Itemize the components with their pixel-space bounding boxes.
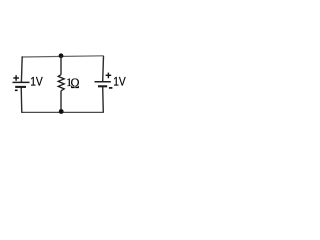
wire top rail (22, 56, 104, 57)
wire left vertical (V1 minus plate to bottom rail) (20, 87, 23, 113)
battery V2 short plate (98, 85, 107, 87)
battery V1 plus sign (13, 75, 19, 81)
wire resistor top lead (60, 56, 62, 75)
node A top junction dot (59, 53, 64, 58)
wire right vertical (V2 minus plate to bottom rail) (102, 87, 105, 113)
battery V2 plus sign (106, 73, 112, 79)
svg-text:1V: 1V (113, 75, 126, 89)
svg-text:Ω: Ω (70, 76, 79, 92)
wire right vertical (top rail to V2 plus plate) (102, 56, 105, 82)
node B bottom junction dot (59, 109, 64, 114)
label 1Ω (resistor value) (66, 76, 79, 92)
wire bottom rail (22, 111, 104, 113)
wire resistor bottom lead (60, 91, 62, 113)
battery V2 minus sign (109, 87, 113, 89)
battery V1 minus sign (15, 89, 18, 91)
battery V2 long plate (95, 81, 111, 83)
wire left vertical (top rail to V1 plus plate) (20, 56, 23, 82)
svg-text:1V: 1V (30, 75, 43, 89)
battery V1 long plate (13, 81, 30, 83)
battery V1 short plate (15, 86, 26, 88)
resistor R1 zigzag (58, 75, 64, 91)
